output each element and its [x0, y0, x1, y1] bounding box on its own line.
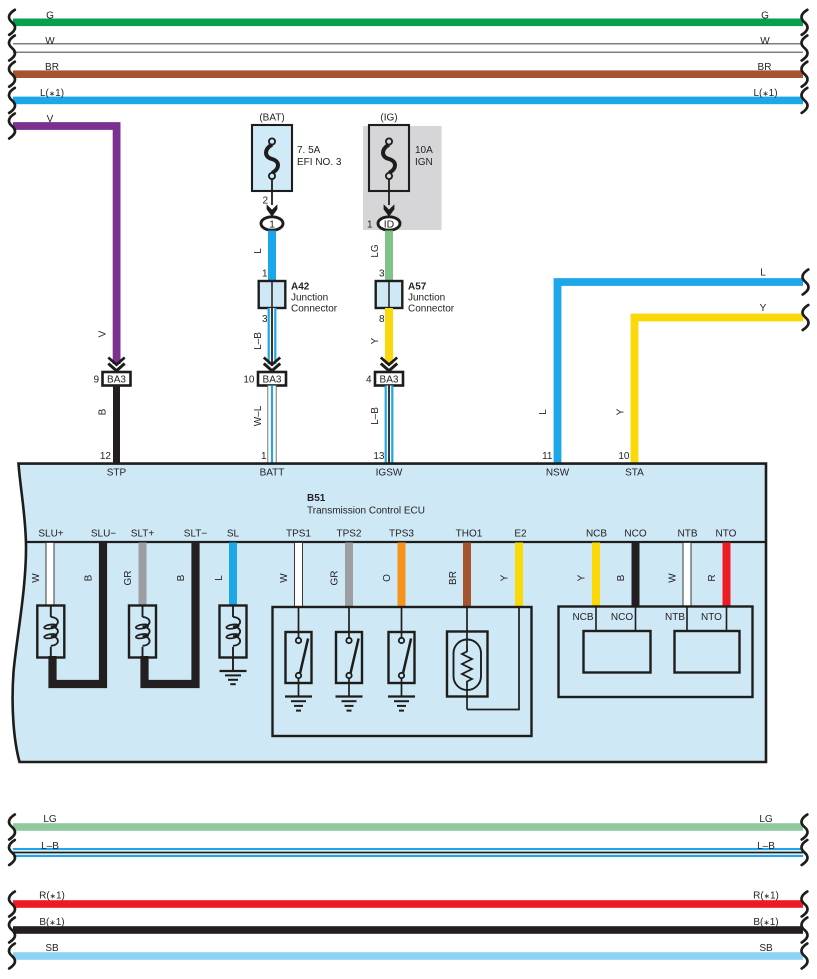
svg-text:A57: A57 — [408, 282, 427, 293]
wire L SL — [214, 543, 237, 606]
svg-text:2: 2 — [262, 196, 268, 207]
svg-text:L: L — [253, 248, 264, 254]
arrow into connector 1 — [267, 204, 278, 217]
svg-text:Junction: Junction — [408, 293, 445, 304]
pin 1 of A42 — [262, 269, 268, 280]
svg-text:Y: Y — [616, 408, 627, 415]
pin 11 — [542, 451, 553, 462]
wire B NCO — [616, 543, 640, 607]
svg-text:LG: LG — [759, 814, 773, 825]
wire O TPS3 — [382, 543, 406, 608]
svg-text:R(∗1): R(∗1) — [753, 891, 779, 902]
svg-text:Y: Y — [500, 574, 511, 581]
solenoid SLU — [37, 606, 64, 658]
svg-text:B(∗1): B(∗1) — [39, 917, 64, 928]
svg-text:W: W — [760, 36, 770, 47]
wire Y to ECU pin 10 STA — [616, 303, 809, 465]
svg-text:R: R — [707, 574, 718, 581]
gray background box — [363, 126, 442, 230]
svg-text:LG: LG — [370, 244, 381, 258]
pin 3 of A57 — [379, 269, 385, 280]
junction block BA3 pin 4 — [366, 372, 403, 386]
svg-text:G: G — [761, 11, 769, 22]
svg-text:L–B: L–B — [370, 407, 381, 425]
connector node 1 — [261, 217, 283, 231]
svg-text:STA: STA — [625, 468, 644, 479]
svg-text:Junction: Junction — [291, 293, 328, 304]
arrow into connector ID — [384, 204, 395, 217]
svg-text:BR: BR — [758, 62, 772, 73]
svg-text:11: 11 — [542, 451, 553, 462]
svg-text:ID: ID — [384, 218, 395, 230]
svg-text:L: L — [538, 409, 549, 415]
svg-text:L: L — [214, 575, 225, 581]
pin 2 of fuse — [262, 196, 268, 207]
svg-text:THO1: THO1 — [456, 529, 483, 540]
svg-text:B: B — [616, 574, 627, 581]
ECU internal terminal row line — [25, 541, 766, 543]
svg-text:4: 4 — [366, 375, 372, 386]
svg-text:W: W — [45, 36, 55, 47]
svg-text:BA3: BA3 — [263, 375, 282, 386]
fuse EFI NO. 3 (BAT) — [252, 113, 342, 206]
svg-text:NCO: NCO — [624, 529, 646, 540]
svg-text:IGSW: IGSW — [376, 468, 403, 479]
node NCO — [611, 607, 636, 632]
svg-text:W: W — [668, 573, 679, 583]
pin 13 — [373, 451, 385, 462]
connector arrows into BA3 (IGSW) — [381, 358, 397, 371]
svg-text:13: 13 — [373, 451, 385, 462]
svg-text:B: B — [98, 408, 109, 415]
wire LG bus — [9, 814, 808, 840]
svg-text:BATT: BATT — [260, 468, 285, 479]
svg-text:1: 1 — [269, 218, 275, 230]
svg-text:E2: E2 — [514, 529, 527, 540]
svg-text:L–B: L–B — [757, 841, 775, 852]
svg-text:NTB: NTB — [678, 529, 698, 540]
svg-text:GR: GR — [330, 571, 341, 586]
pin 12 — [100, 451, 112, 462]
pin 1 of ID — [367, 220, 373, 231]
junction connector A57 — [376, 281, 455, 315]
svg-text:SB: SB — [45, 943, 59, 954]
svg-text:G: G — [46, 11, 54, 22]
svg-text:SLU+: SLU+ — [38, 529, 63, 540]
node NTB — [665, 607, 687, 632]
svg-text:12: 12 — [100, 451, 112, 462]
ECU B51 Transmission Control ECU box — [13, 464, 766, 762]
throttle position sensor box — [273, 607, 532, 736]
svg-text:3: 3 — [379, 269, 385, 280]
svg-text:TPS2: TPS2 — [336, 529, 361, 540]
wire B from BA3 to ECU pin 12 STP — [98, 386, 121, 465]
svg-text:B(∗1): B(∗1) — [753, 917, 778, 928]
ECU pin labels second row — [38, 529, 736, 540]
svg-text:NCO: NCO — [611, 612, 633, 623]
connector node ID — [378, 217, 400, 231]
wire Y E2 — [500, 543, 524, 608]
wire B SLT- to solenoid — [145, 543, 196, 685]
wire W-L from BA3 to ECU pin 1 BATT — [253, 386, 276, 465]
svg-text:NCB: NCB — [586, 529, 607, 540]
solenoid SL — [220, 606, 247, 672]
wire R NTO — [707, 543, 731, 607]
wire BR bus — [9, 62, 808, 87]
wire L to ECU pin 11 NSW — [538, 268, 809, 465]
svg-text:TPS3: TPS3 — [389, 529, 414, 540]
ground for SL solenoid — [220, 671, 247, 684]
svg-text:BR: BR — [448, 571, 459, 585]
wire B(*1) bus — [9, 917, 808, 943]
svg-text:V: V — [47, 114, 54, 125]
wire L-B from A42 to BA3 — [253, 308, 276, 364]
svg-text:SLT−: SLT− — [184, 529, 208, 540]
wire W SLU+ — [31, 543, 54, 606]
svg-text:L–B: L–B — [41, 841, 59, 852]
svg-text:W–L: W–L — [253, 405, 264, 426]
svg-text:NTB: NTB — [665, 612, 685, 623]
svg-text:IGN: IGN — [415, 157, 433, 168]
svg-text:7. 5A: 7. 5A — [297, 145, 321, 156]
svg-text:Connector: Connector — [291, 304, 338, 315]
wire Y NCB — [577, 543, 601, 607]
wire L(*1) bus — [9, 88, 808, 113]
svg-text:O: O — [382, 574, 393, 582]
svg-text:8: 8 — [379, 314, 385, 325]
svg-text:GR: GR — [123, 571, 134, 586]
wire W TPS1 — [279, 543, 303, 608]
svg-text:NCB: NCB — [572, 612, 593, 623]
svg-text:R(∗1): R(∗1) — [39, 891, 65, 902]
svg-text:NSW: NSW — [546, 468, 570, 479]
svg-text:Y: Y — [577, 574, 588, 581]
solenoid SLT — [129, 606, 156, 658]
svg-text:EFI NO. 3: EFI NO. 3 — [297, 157, 342, 168]
svg-text:L–B: L–B — [253, 332, 264, 350]
junction block BA3 pin 10 — [243, 372, 286, 386]
ECU pin labels top row — [107, 468, 644, 479]
wire L-B bus — [9, 840, 808, 865]
svg-text:1: 1 — [367, 220, 373, 231]
junction connector A42 — [259, 281, 338, 315]
wire LG from ID to junction A57 — [370, 231, 393, 282]
svg-text:BA3: BA3 — [380, 375, 399, 386]
switch TPS3 with ground — [388, 607, 415, 711]
svg-text:9: 9 — [93, 375, 99, 386]
wire BR THO1 — [448, 543, 471, 608]
svg-text:(IG): (IG) — [380, 113, 397, 124]
wire Y from A57 to BA3 — [370, 308, 393, 364]
svg-text:3: 3 — [262, 314, 268, 325]
node NCB — [572, 607, 596, 632]
pin 8 of A57 — [379, 314, 385, 325]
svg-text:10: 10 — [618, 451, 630, 462]
svg-text:LG: LG — [43, 814, 57, 825]
svg-text:L(∗1): L(∗1) — [753, 88, 777, 99]
wire W bus — [9, 36, 808, 61]
wire V from bus to BA3 (STP column) — [9, 114, 117, 365]
svg-text:B: B — [176, 574, 187, 581]
wire GR TPS2 — [330, 543, 354, 608]
svg-text:W: W — [279, 573, 290, 583]
wire B SLU- to solenoid — [53, 543, 104, 685]
svg-text:STP: STP — [107, 468, 127, 479]
svg-text:Connector: Connector — [408, 304, 455, 315]
svg-text:W: W — [31, 573, 42, 583]
svg-text:TPS1: TPS1 — [286, 529, 311, 540]
speed sensor NC — [584, 631, 651, 673]
thermistor THO1 sensor — [447, 607, 488, 710]
wire L from fuse to junction A42 — [253, 231, 276, 282]
svg-text:NTO: NTO — [716, 529, 737, 540]
pin 1 — [261, 451, 267, 462]
connector arrows into BA3 (BATT) — [264, 358, 280, 371]
wire L-B from BA3 to ECU pin 13 IGSW — [370, 386, 393, 465]
connector arrows into BA3 (STP) — [108, 358, 124, 371]
speed sensor NT — [675, 631, 740, 673]
svg-text:Transmission Control ECU: Transmission Control ECU — [307, 506, 425, 517]
svg-text:(BAT): (BAT) — [259, 113, 284, 124]
svg-text:10A: 10A — [415, 145, 433, 156]
switch TPS2 with ground — [336, 607, 363, 711]
svg-text:SB: SB — [759, 943, 773, 954]
svg-text:Y: Y — [370, 337, 381, 344]
svg-text:BR: BR — [45, 62, 59, 73]
svg-text:B51: B51 — [307, 493, 326, 504]
svg-text:L(∗1): L(∗1) — [40, 88, 64, 99]
svg-text:1: 1 — [262, 269, 268, 280]
pin 3 of A42 — [262, 314, 268, 325]
svg-text:NTO: NTO — [701, 612, 722, 623]
svg-text:BA3: BA3 — [107, 375, 126, 386]
svg-text:Y: Y — [760, 303, 767, 314]
junction block BA3 pin 9 — [93, 372, 130, 386]
switch TPS1 with ground — [285, 607, 312, 711]
svg-text:10: 10 — [243, 375, 255, 386]
wire W NTB — [668, 543, 692, 607]
svg-text:SLU−: SLU− — [91, 529, 116, 540]
svg-text:1: 1 — [261, 451, 267, 462]
svg-text:SLT+: SLT+ — [131, 529, 155, 540]
wire SB bus — [9, 943, 808, 969]
svg-text:SL: SL — [227, 529, 240, 540]
svg-text:V: V — [98, 330, 109, 337]
pin 10 — [618, 451, 630, 462]
svg-text:A42: A42 — [291, 282, 310, 293]
wire G bus — [9, 10, 808, 35]
node NTO — [701, 607, 726, 632]
fuse IGN (IG) — [369, 113, 433, 206]
wire E2 return line — [467, 607, 519, 710]
svg-text:B: B — [84, 574, 95, 581]
wire R(*1) bus — [9, 891, 808, 917]
svg-text:L: L — [760, 268, 766, 279]
speed sensor box — [559, 607, 753, 698]
wire GR SLT+ — [123, 543, 147, 606]
